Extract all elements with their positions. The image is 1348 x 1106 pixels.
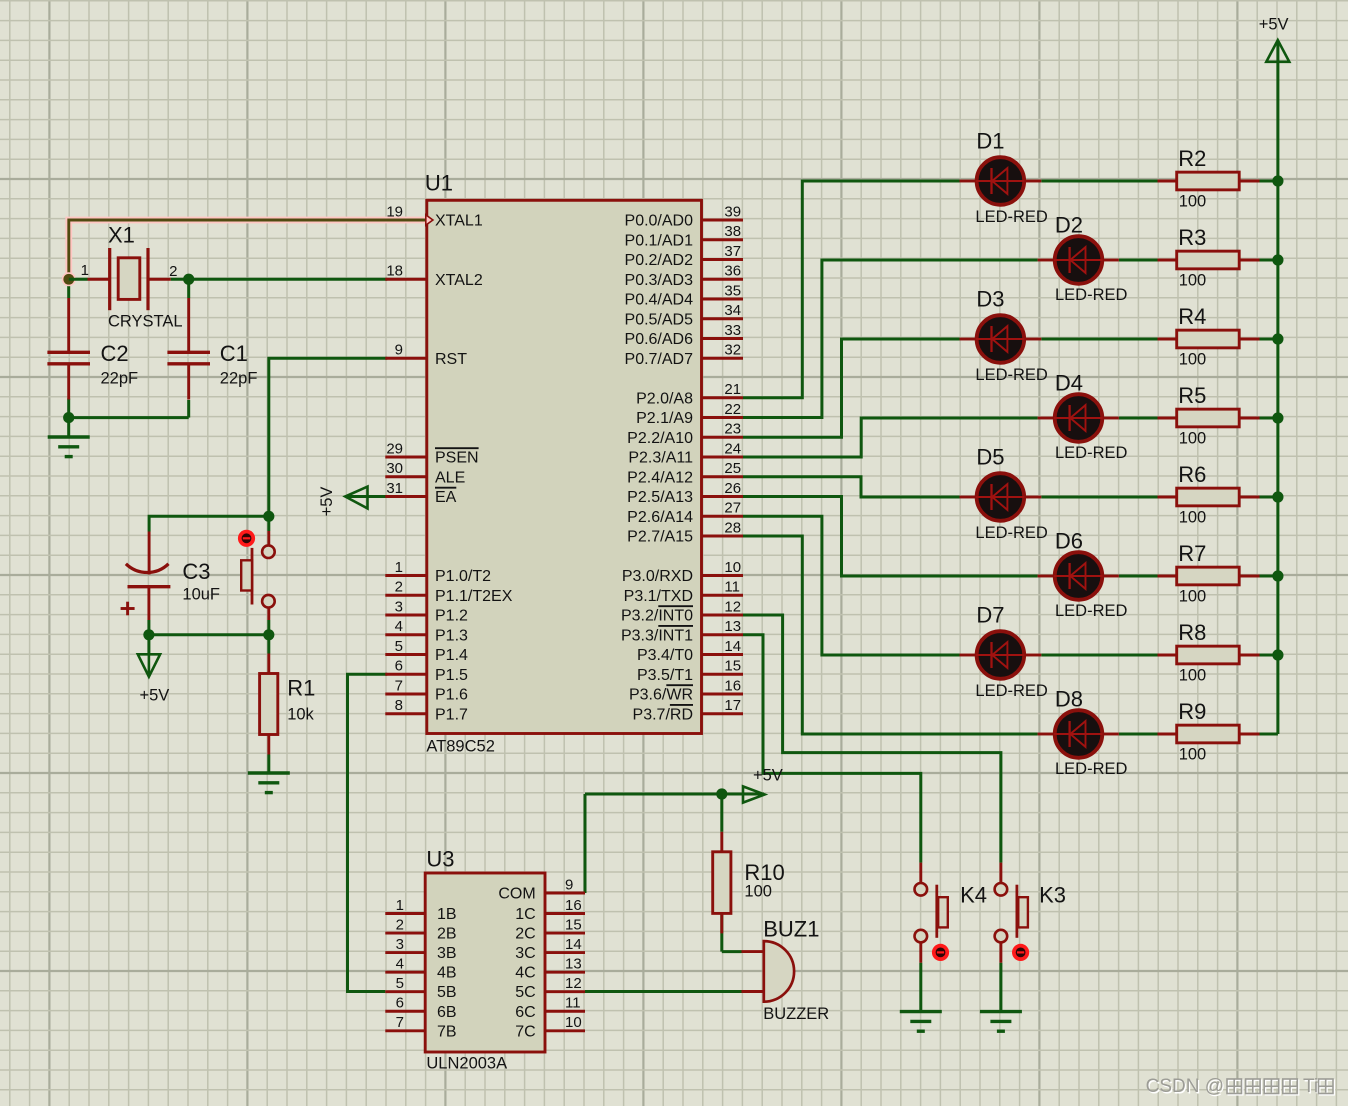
svg-text:P2.6/A14: P2.6/A14: [627, 509, 693, 526]
svg-text:23: 23: [724, 421, 741, 438]
svg-text:10: 10: [724, 559, 741, 576]
svg-text:PSEN: PSEN: [435, 450, 479, 467]
svg-text:P2.0/A8: P2.0/A8: [636, 390, 693, 407]
svg-text:P2.7/A15: P2.7/A15: [627, 529, 693, 546]
svg-text:P0.3/AD3: P0.3/AD3: [625, 272, 694, 289]
svg-text:2: 2: [396, 916, 404, 933]
svg-text:14: 14: [565, 936, 582, 953]
svg-text:32: 32: [724, 342, 741, 359]
svg-text:P2.3/A11: P2.3/A11: [628, 450, 693, 467]
svg-text:5: 5: [395, 638, 403, 655]
svg-text:P3.1/TXD: P3.1/TXD: [624, 588, 693, 605]
svg-text:5B: 5B: [437, 984, 457, 1001]
svg-text:ULN2003A: ULN2003A: [426, 1055, 507, 1073]
svg-text:16: 16: [724, 677, 741, 694]
svg-text:100: 100: [1179, 667, 1207, 685]
svg-text:6C: 6C: [515, 1004, 535, 1021]
svg-text:4: 4: [396, 956, 404, 973]
svg-text:D3: D3: [976, 286, 1004, 311]
svg-text:100: 100: [1179, 272, 1207, 290]
svg-text:27: 27: [724, 500, 741, 517]
svg-text:3: 3: [395, 598, 403, 615]
svg-text:34: 34: [724, 302, 741, 319]
svg-text:P0.7/AD7: P0.7/AD7: [625, 351, 694, 368]
svg-text:10uF: 10uF: [182, 585, 220, 603]
svg-text:6B: 6B: [437, 1004, 457, 1021]
svg-text:ALE: ALE: [435, 469, 465, 486]
svg-text:1: 1: [395, 559, 403, 576]
svg-text:1B: 1B: [437, 906, 457, 923]
svg-text:3B: 3B: [437, 945, 457, 962]
svg-text:C2: C2: [101, 341, 129, 366]
svg-text:LED-RED: LED-RED: [1055, 760, 1128, 778]
svg-text:P3.4/T0: P3.4/T0: [637, 647, 693, 664]
svg-text:P1.3: P1.3: [435, 627, 468, 644]
svg-text:15: 15: [565, 916, 582, 933]
svg-text:CSDN @: CSDN @: [1146, 1076, 1224, 1097]
svg-text:100: 100: [1179, 746, 1207, 764]
svg-text:22pF: 22pF: [101, 369, 139, 387]
svg-text:P0.6/AD6: P0.6/AD6: [625, 331, 694, 348]
svg-text:EA: EA: [435, 489, 457, 506]
svg-text:14: 14: [724, 638, 741, 655]
svg-text:P2.5/A13: P2.5/A13: [627, 489, 693, 506]
svg-text:33: 33: [724, 322, 741, 339]
svg-text:R1: R1: [287, 676, 315, 701]
svg-text:3: 3: [396, 936, 404, 953]
svg-text:D7: D7: [976, 602, 1004, 627]
svg-text:COM: COM: [498, 886, 535, 903]
svg-text:2B: 2B: [437, 926, 457, 943]
svg-text:D2: D2: [1055, 212, 1083, 237]
svg-text:D1: D1: [976, 128, 1004, 153]
svg-text:C1: C1: [220, 341, 248, 366]
svg-text:P1.0/T2: P1.0/T2: [435, 568, 491, 585]
svg-text:7: 7: [395, 677, 403, 694]
svg-text:2C: 2C: [515, 926, 535, 943]
svg-text:38: 38: [724, 223, 741, 240]
svg-text:7C: 7C: [515, 1023, 535, 1040]
svg-text:16: 16: [565, 897, 582, 914]
svg-text:BUZ1: BUZ1: [763, 917, 819, 942]
svg-text:P0.1/AD1: P0.1/AD1: [625, 232, 694, 249]
svg-text:13: 13: [724, 618, 741, 635]
svg-text:P1.1/T2EX: P1.1/T2EX: [435, 588, 513, 605]
svg-text:26: 26: [724, 480, 741, 497]
svg-text:P1.5: P1.5: [435, 667, 468, 684]
svg-text:C3: C3: [182, 559, 210, 584]
svg-text:R4: R4: [1178, 304, 1206, 329]
svg-text:P3.7/RD: P3.7/RD: [633, 706, 693, 723]
svg-text:100: 100: [1179, 430, 1207, 448]
svg-text:X1: X1: [108, 222, 135, 247]
svg-text:R6: R6: [1178, 462, 1206, 487]
svg-text:+5V: +5V: [318, 487, 336, 517]
svg-text:6: 6: [395, 658, 403, 675]
svg-text:R5: R5: [1178, 383, 1206, 408]
svg-text:XTAL1: XTAL1: [435, 213, 483, 230]
svg-text:P3.3/INT1: P3.3/INT1: [621, 627, 693, 644]
svg-text:9: 9: [395, 342, 403, 359]
svg-text:15: 15: [724, 658, 741, 675]
svg-text:4B: 4B: [437, 965, 457, 982]
svg-text:R7: R7: [1178, 541, 1206, 566]
svg-text:39: 39: [724, 203, 741, 220]
svg-text:P3.6/WR: P3.6/WR: [629, 687, 693, 704]
svg-text:22pF: 22pF: [220, 369, 258, 387]
svg-text:+5V: +5V: [753, 766, 783, 784]
svg-text:21: 21: [724, 381, 741, 398]
svg-text:Ti: Ti: [1303, 1076, 1318, 1097]
svg-text:LED-RED: LED-RED: [975, 524, 1048, 542]
svg-text:D8: D8: [1055, 686, 1083, 711]
svg-text:6: 6: [396, 995, 404, 1012]
svg-text:100: 100: [1179, 193, 1207, 211]
svg-text:P0.5/AD5: P0.5/AD5: [625, 311, 694, 328]
svg-text:P0.4/AD4: P0.4/AD4: [625, 292, 694, 309]
svg-text:P3.5/T1: P3.5/T1: [637, 667, 693, 684]
svg-text:12: 12: [565, 975, 582, 992]
svg-text:LED-RED: LED-RED: [975, 366, 1048, 384]
svg-text:LED-RED: LED-RED: [1055, 444, 1128, 462]
svg-text:D6: D6: [1055, 528, 1083, 553]
svg-text:10: 10: [565, 1014, 582, 1031]
svg-text:LED-RED: LED-RED: [1055, 286, 1128, 304]
svg-text:4: 4: [395, 618, 403, 635]
svg-text:17: 17: [724, 697, 741, 714]
svg-text:1: 1: [396, 897, 404, 914]
svg-text:1: 1: [81, 262, 89, 279]
svg-text:P2.4/A12: P2.4/A12: [627, 469, 693, 486]
svg-text:R2: R2: [1178, 146, 1206, 171]
svg-text:30: 30: [386, 460, 403, 477]
svg-text:P3.2/INT0: P3.2/INT0: [621, 608, 693, 625]
svg-text:LED-RED: LED-RED: [1055, 602, 1128, 620]
svg-text:4C: 4C: [515, 965, 535, 982]
svg-text:2: 2: [395, 579, 403, 596]
svg-text:P0.2/AD2: P0.2/AD2: [625, 252, 694, 269]
svg-text:P1.4: P1.4: [435, 647, 468, 664]
svg-text:U1: U1: [425, 170, 453, 195]
svg-text:R3: R3: [1178, 225, 1206, 250]
svg-text:1C: 1C: [515, 906, 535, 923]
svg-text:U3: U3: [426, 846, 454, 871]
svg-text:5C: 5C: [515, 984, 535, 1001]
svg-text:7B: 7B: [437, 1023, 457, 1040]
svg-text:BUZZER: BUZZER: [763, 1005, 829, 1023]
svg-text:100: 100: [1179, 588, 1207, 606]
svg-text:P1.6: P1.6: [435, 687, 468, 704]
svg-text:LED-RED: LED-RED: [975, 682, 1048, 700]
svg-text:25: 25: [724, 460, 741, 477]
svg-text:2: 2: [169, 263, 177, 280]
svg-text:D4: D4: [1055, 370, 1083, 395]
svg-text:7: 7: [396, 1014, 404, 1031]
svg-text:+5V: +5V: [140, 687, 170, 705]
svg-text:100: 100: [744, 882, 772, 900]
svg-text:37: 37: [724, 243, 741, 260]
svg-text:CRYSTAL: CRYSTAL: [108, 312, 183, 330]
svg-text:28: 28: [724, 519, 741, 536]
svg-text:22: 22: [724, 401, 741, 418]
svg-text:100: 100: [1179, 351, 1207, 369]
svg-text:31: 31: [386, 480, 403, 497]
svg-text:RST: RST: [435, 351, 467, 368]
svg-text:R10: R10: [744, 860, 784, 885]
svg-text:+5V: +5V: [1259, 15, 1289, 33]
svg-text:P0.0/AD0: P0.0/AD0: [625, 213, 694, 230]
svg-text:100: 100: [1179, 509, 1207, 527]
svg-text:LED-RED: LED-RED: [975, 208, 1048, 226]
svg-text:K4: K4: [960, 882, 987, 907]
svg-text:K3: K3: [1039, 882, 1066, 907]
svg-text:P1.2: P1.2: [435, 608, 468, 625]
svg-text:36: 36: [724, 263, 741, 280]
svg-text:R9: R9: [1178, 699, 1206, 724]
svg-text:13: 13: [565, 956, 582, 973]
svg-text:10k: 10k: [287, 706, 314, 724]
svg-text:P3.0/RXD: P3.0/RXD: [622, 568, 693, 585]
svg-text:AT89C52: AT89C52: [426, 738, 494, 756]
svg-text:24: 24: [724, 440, 741, 457]
svg-text:9: 9: [565, 876, 573, 893]
svg-text:18: 18: [386, 263, 403, 280]
svg-text:11: 11: [565, 995, 581, 1012]
svg-text:XTAL2: XTAL2: [435, 272, 483, 289]
svg-text:11: 11: [724, 579, 740, 596]
svg-text:D5: D5: [976, 444, 1004, 469]
svg-text:P1.7: P1.7: [435, 706, 468, 723]
svg-text:12: 12: [724, 598, 741, 615]
svg-text:35: 35: [724, 282, 741, 299]
svg-text:R8: R8: [1178, 620, 1206, 645]
svg-text:3C: 3C: [515, 945, 535, 962]
svg-text:29: 29: [386, 440, 403, 457]
svg-text:5: 5: [396, 975, 404, 992]
svg-text:8: 8: [395, 697, 403, 714]
svg-text:P2.2/A10: P2.2/A10: [627, 430, 693, 447]
svg-text:P2.1/A9: P2.1/A9: [636, 410, 693, 427]
